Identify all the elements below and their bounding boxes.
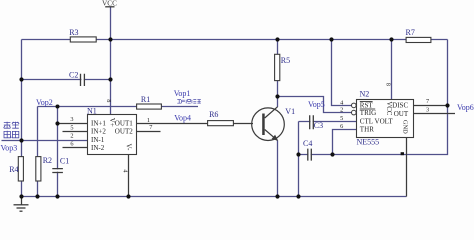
svg-text:2: 2: [340, 106, 343, 113]
svg-text:N1: N1: [87, 106, 97, 115]
junction N2 VCC pin / top rail: [389, 37, 393, 41]
svg-text:3: 3: [70, 116, 73, 123]
svg-text:IN+2: IN+2: [91, 128, 106, 136]
svg-text:3: 3: [426, 107, 429, 114]
VCC power symbol: [102, 0, 117, 7]
wire left rail (Vop3 node vertical): [21, 40, 23, 197]
svg-text:R7: R7: [406, 28, 415, 37]
svg-text:C1: C1: [60, 156, 69, 165]
svg-text:TRIG: TRIG: [360, 109, 376, 117]
resistor R2: [36, 156, 52, 181]
svg-text:V-: V-: [125, 144, 133, 151]
resistor R1: [137, 95, 162, 109]
svg-text:C3: C3: [314, 121, 323, 130]
resistor R5: [275, 54, 291, 80]
timer N2 NE555 box: [357, 90, 414, 147]
svg-text:GND: GND: [402, 120, 409, 134]
junction R5 top / top rail: [275, 37, 279, 41]
svg-text:5: 5: [340, 115, 343, 122]
wire emitter to ground: [277, 141, 279, 197]
N2 pin THR (6): [340, 123, 374, 134]
junction ground / bottom rail: [19, 194, 23, 198]
svg-text:Vop5: Vop5: [308, 100, 325, 109]
wire THR branch: [333, 130, 357, 155]
svg-text:OUT2: OUT2: [115, 128, 133, 136]
op-amp N1 box: [87, 106, 137, 154]
svg-text:R4: R4: [9, 165, 18, 174]
label 短路信号 (short-circuit signal): [177, 100, 200, 104]
junction collector / Vop5 wire: [275, 94, 279, 98]
N2 pin OUT (3): [394, 107, 429, 118]
svg-text:Vop1: Vop1: [174, 89, 191, 98]
junction R2 / bottom rail: [35, 194, 39, 198]
svg-text:1: 1: [147, 117, 150, 124]
junction C4 drop / bottom rail: [296, 194, 300, 198]
resistor R4: [9, 157, 23, 181]
svg-text:7: 7: [149, 124, 152, 131]
N2 pin CTL VOLT (5): [340, 115, 393, 126]
svg-text:R6: R6: [209, 110, 218, 119]
wire C1 vertical: [57, 107, 59, 197]
junction THR branch / C4 right: [330, 152, 334, 156]
junction C2 right / VCC stem: [108, 77, 112, 81]
svg-text:V+: V+: [108, 118, 116, 127]
N1 pin OUT2 (7): [115, 124, 161, 136]
N2 pin VCC (8): [385, 83, 393, 116]
svg-text:CTL VOLT: CTL VOLT: [360, 118, 394, 126]
ground: [14, 197, 29, 212]
wire C2 branch: [22, 79, 111, 81]
label 基准电压 (reference voltage): [4, 122, 20, 138]
resistor R6: [208, 110, 234, 126]
svg-text:C2: C2: [69, 70, 78, 79]
wire Vop3 horizontal: [2, 140, 88, 142]
svg-text:6: 6: [70, 141, 73, 148]
svg-text:DISC: DISC: [392, 101, 408, 109]
svg-text:Vop2: Vop2: [36, 98, 53, 107]
svg-text:N2: N2: [360, 90, 370, 99]
N2 pin DISC (7): [392, 98, 429, 109]
wire R2 vertical: [37, 107, 39, 197]
wire 555 GND pin 1: [406, 138, 408, 197]
N2 pin RST (4) with bubble: [340, 99, 373, 109]
junction C2 left / left rail: [19, 77, 23, 81]
wire right rail (R7 to DISC/THR): [332, 40, 448, 155]
wire N1 pin4 to ground: [128, 155, 130, 197]
junction DISC / right rail: [445, 103, 449, 107]
capacitor C3: [310, 115, 323, 130]
junction mark at GND pin crossing: [401, 152, 404, 155]
N1 pin V- (4): [121, 144, 132, 174]
svg-text:IN-1: IN-1: [91, 136, 105, 144]
svg-text:VCC: VCC: [102, 0, 117, 7]
svg-text:IN-2: IN-2: [91, 144, 105, 152]
wire Vop2 horizontal: [38, 106, 199, 108]
svg-text:OUT1: OUT1: [115, 120, 133, 128]
N1 pin IN-2 (6): [63, 141, 105, 152]
junction Vop3 / left rail: [19, 138, 23, 142]
capacitor C2: [69, 70, 84, 86]
svg-text:Vop4: Vop4: [174, 114, 191, 123]
wire C3 to CTL VOLT: [299, 121, 357, 123]
svg-text:8: 8: [385, 83, 392, 86]
wire VCC to RST: [332, 40, 352, 106]
N2 pin TRIG (2) with bubble: [340, 106, 376, 117]
svg-text:V1: V1: [285, 107, 295, 116]
N1 pin V+ (8): [105, 99, 116, 127]
wire R5/collector vertical: [277, 40, 279, 108]
wire C3 left drop: [298, 122, 300, 155]
N2 pin GND (1): [402, 120, 409, 134]
wire VCC stem to N1 pin 8: [110, 7, 112, 115]
wire OUT Vop6 stub: [414, 113, 456, 115]
junction N1 pin3 / C1 branch: [55, 121, 59, 125]
wire DISC to right rail: [414, 105, 448, 107]
junction RST branch / top rail: [329, 37, 333, 41]
resistor R7: [406, 28, 431, 42]
svg-text:8: 8: [105, 99, 112, 102]
N1 pin OUT1 (1): [115, 117, 150, 128]
wire Vop5 run collector to TRIG: [278, 97, 352, 113]
svg-text:VCC: VCC: [385, 101, 392, 115]
svg-text:5: 5: [70, 124, 73, 131]
capacitor C4: [303, 139, 312, 161]
wire C4 row: [299, 154, 333, 156]
svg-text:2: 2: [70, 133, 73, 140]
svg-text:R5: R5: [281, 56, 290, 65]
svg-text:R1: R1: [141, 95, 150, 104]
wire N1 pin1 to base: [137, 123, 254, 125]
junction C3 drop / C4 left: [296, 152, 300, 156]
svg-text:C4: C4: [303, 139, 312, 148]
svg-text:THR: THR: [360, 126, 374, 134]
svg-text:IN+1: IN+1: [91, 120, 106, 128]
junction C1 / bottom rail: [55, 194, 59, 198]
svg-text:R2: R2: [43, 156, 52, 165]
svg-text:R3: R3: [69, 28, 78, 37]
wire bottom ground rail: [22, 196, 407, 198]
transistor V1: [252, 107, 295, 141]
capacitor C1: [52, 156, 69, 172]
N1 pin IN-1 (2): [70, 133, 104, 144]
junction emitter / bottom rail: [275, 194, 279, 198]
svg-text:OUT: OUT: [394, 110, 409, 118]
svg-text:Vop6: Vop6: [457, 103, 474, 112]
N1 pin IN+2 (5): [63, 124, 107, 135]
wire 555 VCC pin 8: [391, 40, 393, 100]
svg-text:NE555: NE555: [357, 138, 380, 147]
junction N1 pin4 / bottom rail: [126, 194, 130, 198]
junction C1 branch / Vop2 wire: [56, 105, 60, 109]
N1 pin IN+1 (3): [58, 116, 107, 128]
svg-text:7: 7: [426, 98, 429, 105]
wire C4 left drop to ground: [298, 155, 300, 197]
svg-text:6: 6: [340, 123, 343, 130]
junction VCC / top rail: [108, 37, 112, 41]
resistor R3: [69, 28, 96, 42]
wire top rail: [22, 39, 448, 41]
svg-text:Vop3: Vop3: [1, 143, 18, 152]
